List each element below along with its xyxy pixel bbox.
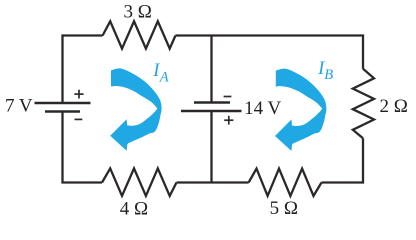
label IA xyxy=(152,61,169,85)
svg-text:2 Ω: 2 Ω xyxy=(380,96,408,117)
svg-text:4 Ω: 4 Ω xyxy=(120,198,148,219)
resistor R3 5ohm (bottom right) xyxy=(249,169,322,196)
resistor R1 3ohm (top) xyxy=(103,21,176,48)
battery V2 14V bottom plate (long, +) xyxy=(181,110,242,113)
label IB xyxy=(317,59,333,83)
wire bottom-middle (5-ohm to 4-ohm through middle node) xyxy=(177,181,249,183)
battery V1 7V top plate (long, +) xyxy=(35,102,91,105)
mesh current arrow IA (left loop, clockwise) xyxy=(110,68,161,150)
svg-text:14 V: 14 V xyxy=(244,98,281,119)
minus sign of 7V source xyxy=(75,118,83,120)
plus sign of 14V source xyxy=(224,116,233,125)
wire top-right (3-ohm to top-right corner, through node at middle branch) xyxy=(176,36,364,69)
wire bottom-left (4-ohm to bottom-left corner up to battery minus plate) xyxy=(63,112,103,183)
resistor R4 4ohm (bottom left) xyxy=(102,168,177,196)
svg-text:B: B xyxy=(324,67,333,83)
mesh current arrow IB (right loop, clockwise) xyxy=(275,69,326,151)
wire top-left (from left branch to 3-ohm resistor) xyxy=(63,36,103,104)
minus sign of 14V source xyxy=(224,96,232,98)
wire right-bottom (2-ohm down to bottom-right corner, to 5-ohm) xyxy=(322,138,364,182)
svg-text:3 Ω: 3 Ω xyxy=(124,1,152,22)
resistor R2 2ohm (right) xyxy=(353,69,374,139)
wire middle branch bottom (battery down to bottom node) xyxy=(210,111,212,183)
svg-text:7 V: 7 V xyxy=(5,95,33,116)
svg-text:5 Ω: 5 Ω xyxy=(270,198,298,219)
svg-text:A: A xyxy=(159,69,169,85)
battery V2 14V top plate (short, -) xyxy=(194,101,230,104)
plus sign of 7V source xyxy=(74,90,83,99)
battery V1 7V bottom plate (short, -) xyxy=(45,110,80,113)
wire middle branch top (top node down to 14V battery) xyxy=(210,36,212,103)
